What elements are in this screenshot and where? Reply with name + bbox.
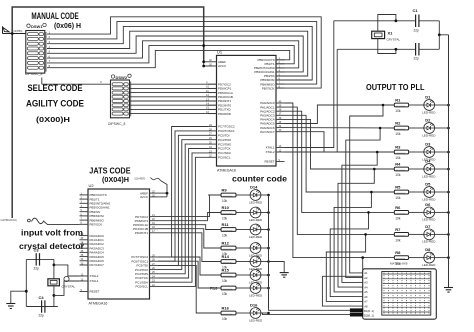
svg-text:R14: R14: [222, 254, 230, 259]
svg-text:PD3/INT1: PD3/INT1: [135, 231, 149, 235]
svg-text:U1: U1: [217, 49, 223, 54]
ground for crystal circuit: [6, 290, 27, 309]
svg-text:LED-RED: LED-RED: [422, 197, 436, 201]
wires crystal to U2 XTAL pins: [54, 265, 80, 296]
label X1: [388, 31, 394, 36]
svg-text:PC0/SCL: PC0/SCL: [135, 285, 148, 289]
wire C4 rail: [26, 306, 58, 308]
wire DSW1 left common: [3, 33, 26, 35]
svg-text:R1: R1: [395, 97, 401, 102]
svg-text:D7: D7: [425, 224, 431, 229]
label C4: [39, 295, 45, 300]
svg-text:MANUAL CODE: MANUAL CODE: [31, 11, 78, 21]
svg-text:10k: 10k: [222, 217, 228, 221]
svg-text:crystal detector: crystal detector: [19, 242, 84, 251]
off-page connector input volt: [1, 218, 80, 224]
svg-text:DIPSWC_8: DIPSWC_8: [108, 122, 125, 126]
svg-text:R10: R10: [222, 205, 230, 210]
wires to matrix cathode pins: [261, 308, 351, 315]
svg-text:input volt from: input volt from: [21, 229, 83, 238]
svg-text:R3: R3: [395, 144, 401, 149]
resistor R5 with LED D5 row: [394, 182, 450, 202]
svg-text:22p: 22p: [414, 57, 420, 61]
svg-text:R9: R9: [222, 187, 228, 192]
crystal X2 for U2: [48, 259, 60, 306]
resistor R15 with LED row: [208, 267, 270, 284]
svg-text:PC0/SCL: PC0/SCL: [218, 156, 231, 160]
LED matrix body: [363, 269, 437, 319]
svg-text:D4: D4: [425, 159, 431, 164]
svg-text:LED-RED: LED-RED: [422, 218, 436, 222]
svg-text:DSW2: DSW2: [116, 75, 128, 80]
U1 AREF AVCC wires: [202, 60, 208, 67]
svg-text:ATMEGA16: ATMEGA16: [217, 169, 236, 173]
label MANUAL CODE: [31, 11, 78, 21]
svg-text:R12: R12: [222, 240, 230, 245]
svg-text:R4: R4: [395, 161, 401, 166]
svg-text:A2: A2: [364, 276, 368, 280]
svg-text:PC7/TOSC2: PC7/TOSC2: [218, 125, 235, 129]
svg-text:10k: 10k: [395, 109, 401, 113]
label DSW1: [27, 23, 46, 29]
capacitor C2: [416, 43, 440, 56]
resistor R2 with LED D2 row: [394, 118, 450, 138]
svg-text:LED-RED: LED-RED: [422, 240, 436, 244]
label DIPSWC_8 under DSW2: [108, 122, 125, 126]
resistor R8 with LED D8 row: [394, 247, 450, 267]
svg-text:10k: 10k: [395, 239, 401, 243]
resistor R6 with LED D6 row: [394, 202, 450, 222]
resistor R4 with LED D4 row: [394, 159, 450, 179]
svg-text:(0X04)H: (0X04)H: [102, 177, 129, 184]
svg-text:A3: A3: [364, 281, 368, 285]
label AGILITY CODE: [26, 99, 84, 109]
resistor R3 with LED D3 row: [394, 142, 450, 162]
capacitor C4: [42, 300, 45, 312]
svg-text:AVCC: AVCC: [218, 64, 227, 68]
svg-text:A8: A8: [364, 304, 368, 308]
svg-text:R16: R16: [222, 305, 230, 310]
svg-text:22p: 22p: [39, 314, 45, 318]
svg-text:LED-RED: LED-RED: [249, 293, 263, 297]
wire into DSW2 left: [42, 78, 111, 85]
svg-text:PC6/TOSC1: PC6/TOSC1: [218, 129, 235, 133]
wires U2 to counter resistors: [158, 195, 221, 313]
label SELECT CODE: [28, 83, 83, 93]
svg-text:C1: C1: [413, 8, 419, 13]
svg-text:U2: U2: [89, 183, 95, 188]
svg-text:LED-RED: LED-RED: [249, 218, 263, 222]
pin numbers right of DSW1: [49, 30, 51, 68]
wires DSW2 to U1 PD pins: [130, 84, 217, 113]
svg-text:JATS CODE: JATS CODE: [89, 167, 131, 176]
svg-text:10k: 10k: [222, 279, 228, 283]
svg-text:10k: 10k: [222, 234, 228, 238]
wire crystal circuit to right bus: [438, 21, 449, 50]
svg-text:(0x06) H: (0x06) H: [54, 23, 81, 30]
svg-text:U2(AREF): U2(AREF): [134, 178, 145, 181]
svg-text:R2: R2: [395, 120, 401, 125]
label C3: [34, 248, 40, 253]
svg-text:OUTPUT TO PLL: OUTPUT TO PLL: [366, 82, 425, 92]
capacitor C1: [416, 15, 440, 28]
svg-text:D1[8..1]: D1[8..1]: [364, 309, 374, 313]
svg-text:LED-RED: LED-RED: [422, 174, 436, 178]
svg-text:PC5/TDI: PC5/TDI: [218, 134, 230, 138]
dip switch DSW1 body: [26, 31, 46, 74]
svg-text:LED-RED: LED-RED: [249, 200, 263, 204]
pin number 3 at DSW2: [100, 80, 102, 84]
svg-text:LED-RED: LED-RED: [249, 235, 263, 239]
label (0X00)H: [36, 115, 70, 124]
svg-text:LED-RED: LED-RED: [422, 263, 436, 267]
label (0X04)H: [102, 177, 129, 184]
value 22p of C4: [39, 314, 45, 318]
resistor R12 with LED row: [208, 240, 270, 257]
LED matrix pins A1-A8: [359, 271, 369, 308]
svg-text:DIPSWC_8: DIPSWC_8: [25, 72, 42, 76]
wire crystal bottom rail: [337, 48, 415, 50]
svg-text:C4: C4: [39, 295, 45, 300]
LED matrix grid: [382, 272, 431, 316]
svg-text:PC4/TDO: PC4/TDO: [218, 138, 232, 142]
label counter code: [232, 175, 287, 184]
svg-text:LED-RED: LED-RED: [422, 110, 436, 114]
label DSW2: [111, 74, 131, 80]
svg-text:10k: 10k: [222, 199, 228, 203]
wires DSW1 to U1 PB pins nested loops: [47, 17, 321, 88]
svg-text:D2[8..1]: D2[8..1]: [364, 314, 374, 318]
svg-text:10k: 10k: [395, 132, 401, 136]
junction dot on left rail at DSW1 wire: [11, 32, 14, 35]
label CRYSTAL: [387, 38, 401, 42]
svg-text:(0X00)H: (0X00)H: [36, 115, 70, 124]
svg-text:XTAL1: XTAL1: [266, 146, 275, 150]
wires taps from PLL rows into LED matrix pins: [322, 104, 384, 306]
resistor R13 with LED row: [208, 283, 270, 298]
resistor R1 with LED D1 row: [394, 95, 450, 115]
svg-text:22p: 22p: [414, 29, 420, 33]
svg-text:DSW1: DSW1: [31, 24, 43, 29]
svg-text:A5: A5: [364, 290, 368, 294]
resistor R9 with LED row: [208, 185, 270, 205]
label (0x06) H: [54, 23, 81, 30]
svg-text:A1: A1: [364, 271, 368, 275]
capacitor C3: [36, 253, 39, 265]
svg-text:C3: C3: [34, 248, 40, 253]
junction dot on frame drop: [202, 44, 205, 47]
svg-text:D14: D14: [250, 185, 258, 190]
PLL LED right bus: [448, 35, 450, 288]
svg-text:D3: D3: [425, 142, 431, 147]
wire top frame from left rail to U1 AREF drop: [12, 7, 204, 218]
svg-text:U2(PB0): U2(PB0): [13, 30, 22, 33]
svg-text:22p: 22p: [34, 267, 40, 271]
svg-text:PD0/RXD: PD0/RXD: [218, 112, 232, 116]
svg-text:PC2/TCK: PC2/TCK: [218, 147, 231, 151]
label crystal detector: [19, 242, 84, 251]
label OUTPUT TO PLL: [366, 82, 425, 92]
op-amp U1 microcontroller ATMEGA16: [208, 49, 285, 172]
svg-text:10k: 10k: [222, 292, 228, 296]
svg-text:counter code: counter code: [232, 175, 287, 184]
svg-text:10k: 10k: [222, 317, 228, 321]
svg-text:AVCC: AVCC: [140, 195, 149, 199]
resistor R14 with LED row: [208, 254, 270, 271]
value 22p of C3: [34, 267, 40, 271]
svg-text:U2(PB0/ADC0): U2(PB0/ADC0): [1, 219, 17, 222]
wires U1 PA pins to PLL resistors: [285, 103, 395, 258]
ground for counter LEDs: [269, 262, 289, 278]
op-amp U2 microcontroller ATMEGA16: [80, 183, 159, 306]
LED matrix cathode pins: [350, 309, 374, 318]
svg-text:10k: 10k: [395, 173, 401, 177]
svg-text:R7: R7: [395, 227, 401, 232]
svg-text:ATMEGA16: ATMEGA16: [89, 302, 108, 306]
off-page power arrow left of DSW1: [3, 26, 10, 33]
label C1: [413, 8, 419, 13]
dip switch DSW2 body: [111, 80, 131, 118]
value 22p of C1: [414, 29, 420, 33]
counter LED right bus: [268, 195, 270, 308]
label CRYSTAL of X2: [62, 285, 76, 289]
svg-text:PB7/SCK: PB7/SCK: [262, 86, 275, 90]
svg-text:R6: R6: [395, 205, 401, 210]
label input volt from: [21, 229, 83, 238]
svg-text:D5: D5: [425, 182, 431, 187]
svg-text:PC3/TMS: PC3/TMS: [218, 142, 231, 146]
resistor R10 with LED row: [208, 205, 270, 222]
resistor R7 with LED D7 row: [394, 224, 450, 244]
svg-text:X1: X1: [388, 31, 394, 36]
svg-text:XTAL2: XTAL2: [266, 150, 275, 154]
svg-text:R5: R5: [395, 184, 401, 189]
resistor R16 with LED row: [208, 303, 270, 323]
svg-text:PA7/ADC7: PA7/ADC7: [90, 263, 105, 267]
svg-text:XTAL2: XTAL2: [90, 274, 99, 278]
svg-text:D2: D2: [425, 118, 431, 123]
wire left side of crystal loop: [25, 259, 27, 306]
svg-text:D6: D6: [425, 202, 431, 207]
svg-text:R8: R8: [395, 250, 401, 255]
svg-text:R11: R11: [222, 222, 230, 227]
svg-text:10k: 10k: [395, 196, 401, 200]
label matrix part: [390, 262, 408, 266]
svg-text:XTAL1: XTAL1: [90, 279, 99, 283]
svg-text:D16: D16: [250, 303, 258, 308]
svg-text:AGILITY CODE: AGILITY CODE: [26, 99, 84, 109]
wires U1 PC pins to U2 PC pins: [158, 127, 208, 287]
wires U1 XTAL to crystal circuit: [285, 21, 338, 152]
svg-text:A7: A7: [364, 300, 368, 304]
wire crystal top rail: [334, 20, 416, 22]
crystal X1: [372, 15, 398, 54]
svg-text:PC1/SDA: PC1/SDA: [218, 151, 231, 155]
value 22p of C2: [414, 57, 420, 61]
ground right bus: [444, 288, 453, 293]
svg-text:MATRIX-8X8: MATRIX-8X8: [390, 262, 408, 266]
svg-text:CRYSTAL: CRYSTAL: [387, 38, 401, 42]
svg-text:A6: A6: [364, 295, 368, 299]
svg-text:LED-RED: LED-RED: [422, 133, 436, 137]
label JATS CODE: [89, 167, 131, 176]
svg-text:10k: 10k: [395, 217, 401, 221]
svg-text:A4: A4: [364, 285, 368, 289]
svg-text:D8: D8: [425, 247, 431, 252]
label DIPSWC_8 under DSW1: [25, 72, 42, 76]
svg-text:PB7/SCK: PB7/SCK: [90, 223, 103, 227]
svg-text:RESET: RESET: [90, 290, 100, 294]
svg-text:LED-RED: LED-RED: [249, 318, 263, 322]
U2 AREF AVCC wires: [134, 178, 168, 197]
svg-text:R15: R15: [222, 267, 230, 272]
tiny net label left of DSW1: [13, 30, 22, 33]
svg-text:RESET: RESET: [264, 160, 274, 164]
pin numbers left of U1 group1: [206, 81, 209, 114]
resistor R11 with LED row: [208, 222, 270, 239]
svg-text:PA7/ADC7: PA7/ADC7: [260, 130, 275, 134]
svg-text:10k: 10k: [395, 156, 401, 160]
wire C3 rail: [26, 258, 54, 260]
svg-text:D1: D1: [425, 95, 431, 100]
